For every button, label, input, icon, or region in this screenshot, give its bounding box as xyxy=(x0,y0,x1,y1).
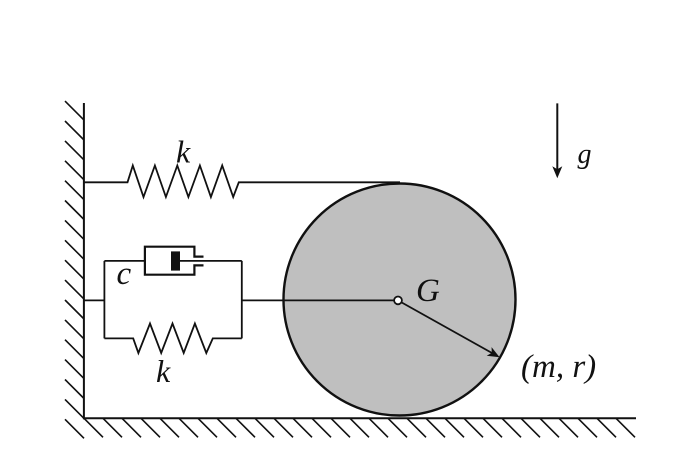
svg-text:c: c xyxy=(117,256,132,292)
svg-text:G: G xyxy=(416,273,440,309)
svg-text:k: k xyxy=(156,353,171,389)
svg-text:k: k xyxy=(176,134,191,170)
svg-text:(m, r): (m, r) xyxy=(521,349,596,385)
svg-text:g: g xyxy=(578,139,592,170)
